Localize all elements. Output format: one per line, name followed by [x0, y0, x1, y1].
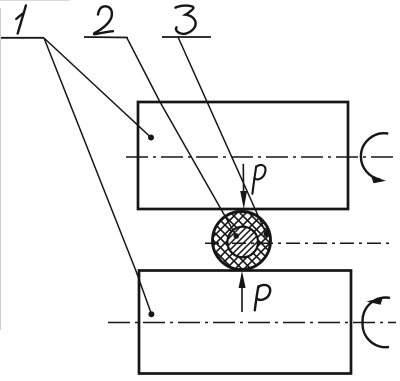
bottom roller rotation arrow arc [363, 298, 390, 348]
workpiece outer circle cross-hatch fill [213, 212, 271, 270]
scan artifact top edge [0, 0, 70, 2]
workpiece centerline [205, 242, 394, 244]
bottom force P arrow line [241, 283, 243, 312]
workpiece inner core circle hatch fill [227, 227, 258, 258]
bottom force P label [255, 285, 270, 310]
label 1 [16, 6, 26, 34]
top force P label [252, 165, 265, 194]
leader dot on inner core [234, 233, 240, 239]
bottom roller rotation arrowhead [367, 297, 384, 305]
top force P arrow line [242, 164, 244, 197]
leader dot on top roller [148, 135, 154, 141]
leader line 3 to outer ring [178, 37, 266, 234]
top force P arrowhead [240, 191, 247, 209]
bottom roller rectangle [139, 271, 351, 374]
label 3 [176, 6, 196, 34]
label 2 [94, 6, 113, 34]
workpiece inner core circle outline [227, 227, 258, 258]
leader line 1a to top roller [44, 38, 151, 138]
label 3 underline [162, 36, 211, 38]
leader line 2 to inner core [127, 38, 236, 236]
leader dot on bottom roller [148, 311, 154, 317]
label 1 underline [1, 37, 44, 39]
label 2 underline [84, 36, 128, 39]
workpiece outer circle outline [213, 212, 271, 270]
leader line 1b to bottom roller [44, 38, 151, 314]
scan artifact left edge [0, 8, 2, 330]
bottom roller centerline [108, 322, 396, 324]
leader dot on outer ring [264, 231, 270, 237]
top roller rectangle [138, 102, 348, 209]
top roller centerline [126, 156, 393, 158]
bottom force P arrowhead [239, 271, 246, 288]
top roller rotation arrowhead [371, 176, 386, 184]
top roller rotation arrow arc [361, 133, 388, 179]
